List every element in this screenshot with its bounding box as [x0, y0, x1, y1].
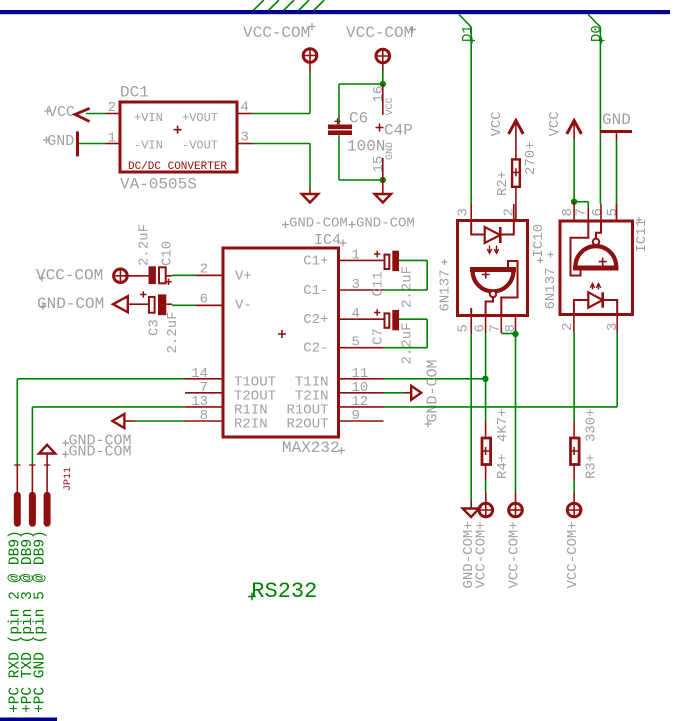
svg-text:GND-COM: GND-COM: [425, 359, 442, 422]
svg-text:VA-0505S: VA-0505S: [120, 176, 197, 194]
net arrow GND-COM (R2IN): [112, 414, 135, 428]
wire C3 to V-: [172, 304, 223, 306]
IC11 pin 2 (bottom): [560, 314, 576, 332]
svg-text:3: 3: [456, 208, 472, 216]
IC10 pin 8 (bottom): [503, 316, 519, 333]
svg-text:R3+: R3+: [584, 454, 600, 479]
wire C10 to V+: [172, 274, 223, 276]
svg-text:+VOUT: +VOUT: [182, 111, 218, 125]
svg-text:C7: C7: [371, 328, 387, 345]
capacitor C10: [128, 224, 176, 285]
wire IC11 pin2 through R3: [573, 332, 575, 492]
svg-text:C3: C3: [147, 319, 163, 336]
svg-text:C6: C6: [349, 110, 368, 128]
junction (IC11 pin8 net): [571, 199, 577, 205]
svg-text:V-: V-: [235, 298, 252, 314]
resistor R4 4K7: [482, 408, 511, 479]
svg-text:6: 6: [590, 208, 606, 216]
svg-text:C2-: C2-: [303, 341, 328, 357]
svg-text:2.2uF: 2.2uF: [137, 224, 153, 266]
bus entry hatch marks: [253, 0, 324, 11]
DC1 pin 3: [239, 130, 253, 146]
supply VCC-COM (top left): [243, 23, 318, 74]
DC1 pin 2: [106, 100, 119, 116]
IC4 pin numbers right: [352, 248, 369, 425]
svg-text:R4+: R4+: [495, 454, 511, 479]
svg-text:IC11: IC11: [634, 219, 650, 253]
svg-text:GND: GND: [602, 111, 631, 129]
svg-text:GND-COM: GND-COM: [69, 444, 132, 461]
net arrow GND-COM (T2IN): [404, 359, 442, 427]
supply VCC-COM (top second): [346, 24, 416, 74]
label GND-COM (JP11 pin3 net): [62, 444, 131, 461]
resistor R2 270: [495, 141, 539, 219]
supply VCC (arrow, above R2): [489, 111, 523, 159]
JP11 pin 1: [14, 465, 21, 527]
svg-text:5: 5: [605, 208, 621, 216]
wire T2IN stub: [384, 392, 405, 394]
JP11 pin 3: [44, 465, 51, 527]
svg-text:6N137: 6N137: [438, 269, 454, 311]
IC10 pin 7 (bottom): [488, 316, 504, 333]
svg-text:2.2uF: 2.2uF: [165, 311, 181, 353]
IC10 LED: [471, 220, 514, 253]
svg-text:VCC-COM+: VCC-COM+: [565, 521, 581, 588]
svg-text:IC10: IC10: [531, 224, 547, 258]
wire VCC to IC11 pins 7+8: [574, 140, 588, 208]
wire T1IN to opto net: [384, 378, 486, 380]
supply GND (top right): [600, 111, 632, 141]
svg-text:DC1: DC1: [120, 84, 149, 102]
wire C6 top branch: [339, 70, 383, 124]
svg-text:GND: GND: [385, 142, 396, 160]
svg-text:R2IN: R2IN: [234, 417, 268, 433]
supply VCC (left, arrow): [44, 104, 89, 122]
junction (T1IN): [482, 376, 488, 382]
wire DC1 +VOUT to VCC-COM: [252, 74, 310, 114]
svg-text:VCC-COM: VCC-COM: [243, 24, 310, 42]
label GND-COM (R2IN net): [62, 432, 131, 449]
svg-text:VCC-COM+: VCC-COM+: [507, 521, 523, 588]
capacitor C7: [371, 309, 416, 364]
svg-text:VCC-COM: VCC-COM: [346, 24, 413, 42]
DC1 pin 1: [106, 131, 119, 147]
svg-text:V+: V+: [235, 269, 252, 285]
svg-text:5: 5: [456, 324, 472, 332]
IC4 pin numbers left: [191, 262, 208, 425]
svg-text:IC4: IC4: [314, 232, 341, 249]
wire C7 loop pin4-pin5: [384, 319, 428, 348]
svg-text:MAX232: MAX232: [282, 439, 340, 457]
IC10 pin 2 (top): [502, 204, 518, 220]
svg-text:7: 7: [574, 208, 590, 216]
supply VCC-COM (below IC10 pin8 net): [507, 492, 524, 589]
svg-text:R2+: R2+: [495, 171, 511, 196]
bus entry + wire D1: [459, 15, 476, 205]
svg-text:2.2uF: 2.2uF: [400, 266, 416, 308]
IC11 LED: [574, 284, 617, 315]
JP11 pin 2: [29, 465, 36, 527]
ground GND-COM (left of IC4, arrow): [37, 295, 128, 313]
wire R1OUT to IC11 pin3: [384, 332, 618, 407]
svg-text:3: 3: [605, 323, 621, 331]
svg-text:6N137: 6N137: [543, 267, 559, 309]
capacitor C6: [328, 110, 385, 156]
svg-text:C1+: C1+: [303, 254, 328, 270]
svg-text:GND-COM: GND-COM: [289, 216, 348, 232]
IC10 pin 3 (top): [456, 204, 472, 220]
wire C6 bottom branch: [339, 135, 383, 180]
bus entry + wire D0: [588, 15, 605, 205]
resistor R3 330: [570, 408, 599, 479]
wire DC1 -VOUT to GND-COM: [252, 144, 310, 195]
junction (C6 bottom): [380, 177, 386, 183]
svg-text:VCC: VCC: [48, 104, 75, 121]
capacitor C3: [128, 291, 181, 353]
IC4 pin stubs left: [185, 275, 223, 421]
capacitor C11: [371, 251, 416, 308]
optocoupler IC11 6N137: [543, 217, 650, 315]
svg-text:330+: 330+: [584, 408, 600, 442]
ground GND-COM arrow (JP11 pin3): [39, 445, 55, 492]
wire R2IN stub: [135, 420, 185, 422]
wire GND to DC1 pin1: [79, 143, 106, 145]
svg-text:2.2uF: 2.2uF: [400, 322, 416, 364]
ground GND-COM (below DC1): [282, 194, 348, 232]
supply VCC-COM (left of IC4): [36, 266, 138, 284]
svg-text:R2OUT: R2OUT: [286, 417, 328, 433]
wire VCC to DC1 pin2: [86, 113, 106, 115]
label RS232: [248, 579, 317, 604]
svg-text:GND: GND: [47, 133, 74, 150]
supply VCC (arrow, above IC11): [547, 111, 581, 140]
svg-text:GND-COM: GND-COM: [37, 295, 104, 313]
svg-text:DC/DC CONVERTER: DC/DC CONVERTER: [128, 161, 227, 173]
svg-text:VCC-COM: VCC-COM: [36, 266, 103, 284]
svg-text:RS232: RS232: [251, 579, 317, 604]
svg-text:2: 2: [502, 208, 518, 216]
svg-text:+VIN: +VIN: [134, 111, 163, 125]
svg-text:+PC GND (pin 5 @ DB9): +PC GND (pin 5 @ DB9): [33, 530, 49, 713]
wire C11 loop pin1-pin3: [384, 260, 428, 290]
svg-text:JP11: JP11: [63, 467, 74, 491]
junction (C6 top): [380, 81, 386, 87]
supply VCC-COM (below R4): [474, 492, 494, 589]
bus (top blue line): [0, 10, 670, 14]
IC10 pin 6 (bottom): [473, 316, 489, 333]
IC10 pin 5 (bottom): [456, 316, 472, 333]
svg-text:D1: D1: [460, 25, 476, 42]
IC10 detector gate: [470, 261, 518, 316]
svg-text:-VOUT: -VOUT: [182, 138, 218, 152]
power flag C4P: [371, 84, 413, 180]
IC11 pin 7 (top): [574, 208, 590, 221]
svg-text:C1-: C1-: [303, 283, 328, 299]
IC11 pin 5 (top): [605, 204, 621, 221]
svg-text:C10: C10: [160, 241, 176, 266]
DC1 pin 4: [239, 100, 253, 116]
IC4 pin stubs right: [337, 260, 384, 421]
svg-text:VCC: VCC: [489, 111, 505, 136]
ground GND-COM (bottom): [461, 509, 479, 589]
wire GND to IC11 pin5: [616, 141, 618, 220]
frame segment bottom-left: [0, 718, 57, 721]
optocoupler IC10 6N137: [438, 221, 548, 316]
wire IC10 pins7+8 down: [501, 334, 515, 493]
svg-text:C11: C11: [371, 271, 387, 296]
junction (IC10 pin8): [512, 331, 518, 337]
svg-text:D0: D0: [589, 25, 605, 42]
wire R1IN to JP11 pin2: [32, 407, 185, 465]
svg-text:C4P: C4P: [384, 122, 413, 140]
IC11 detector gate: [571, 221, 619, 276]
wire T1OUT to JP11 pin1: [17, 379, 185, 465]
svg-text:100N: 100N: [347, 138, 385, 156]
wire IC10 pin6 through R4: [485, 333, 487, 492]
svg-text:270+: 270+: [523, 141, 539, 175]
DC/DC converter DC1: [120, 84, 237, 194]
IC11 pin 3 (bottom): [605, 314, 621, 332]
IC11 pin 6 (top): [590, 204, 606, 221]
svg-text:VCC-COM+: VCC-COM+: [474, 521, 490, 588]
svg-text:GND-COM: GND-COM: [356, 216, 415, 232]
op-amp IC4 MAX232 box: [223, 232, 347, 457]
supply VCC-COM (below R3): [565, 492, 582, 589]
svg-text:-VIN: -VIN: [134, 138, 163, 152]
wire IC10 pin5 to GND-COM: [470, 333, 472, 509]
svg-text:VCC: VCC: [385, 97, 396, 115]
supply GND (left, bar): [43, 131, 78, 156]
svg-text:VCC: VCC: [547, 111, 563, 136]
IC11 pin 8 (top): [560, 202, 576, 221]
svg-text:C2+: C2+: [303, 312, 328, 328]
ground GND-COM (below C4P): [349, 180, 415, 232]
svg-text:4K7+: 4K7+: [495, 408, 511, 442]
